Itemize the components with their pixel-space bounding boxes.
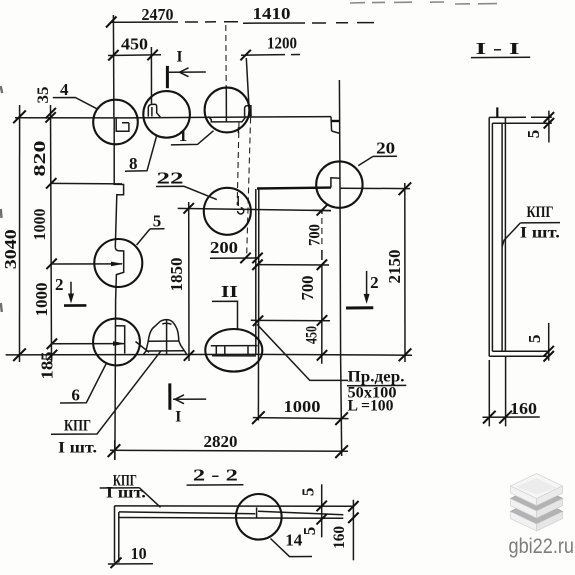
svg-text:2: 2 bbox=[370, 273, 379, 292]
svg-text:I: I bbox=[175, 409, 181, 426]
svg-text:КПГ: КПГ bbox=[527, 204, 554, 221]
left edge lower run bbox=[114, 300, 117, 460]
ticks 700 column bbox=[317, 205, 328, 361]
bell inner cap mark bbox=[162, 323, 171, 324]
detail circle 14 bbox=[236, 494, 282, 540]
crosses 2150 bbox=[399, 182, 412, 361]
svg-text:185: 185 bbox=[38, 352, 57, 380]
svg-text:3040: 3040 bbox=[1, 229, 20, 269]
extension y183 bbox=[51, 182, 122, 185]
recess in circle 3 bbox=[208, 116, 246, 122]
scan noise left margin bbox=[1, 86, 3, 312]
interior line y208 with circle 22 bbox=[178, 208, 331, 210]
bell centerline bbox=[166, 320, 168, 355]
dim line 2470/1410 top bbox=[111, 21, 178, 23]
detail circle 20 bbox=[316, 161, 362, 207]
dim line 3040 vertical bbox=[19, 105, 21, 362]
svg-text:200: 200 bbox=[210, 238, 238, 257]
hidden slot dashed line left bbox=[237, 122, 239, 205]
dim line 2150 bbox=[404, 183, 406, 362]
svg-text:5: 5 bbox=[524, 130, 543, 139]
section line through circle 3 bbox=[225, 86, 227, 122]
svg-text:I - I: I - I bbox=[476, 39, 521, 58]
2-2 channel mid line right bbox=[258, 511, 343, 515]
detail circle 5 bbox=[94, 239, 142, 287]
svg-text:700: 700 bbox=[298, 276, 317, 301]
circle 14 joint bbox=[256, 507, 258, 518]
svg-text:gbi22.ru: gbi22.ru bbox=[509, 535, 575, 558]
detail circle 3 bbox=[205, 88, 250, 133]
circle 22 hook bbox=[238, 196, 244, 214]
detail circle 22 bbox=[204, 188, 251, 235]
opening left double line bbox=[255, 189, 257, 355]
panel bottom edge bbox=[6, 353, 412, 356]
I-I bottom foot bbox=[489, 351, 549, 356]
dim line 1850 vertical bbox=[188, 202, 190, 361]
svg-text:450: 450 bbox=[304, 326, 321, 344]
I-I top dim extension bbox=[505, 116, 551, 118]
extension y343.7 with arrow bbox=[51, 343, 124, 345]
extension for 2820 left bbox=[114, 440, 116, 460]
svg-text:2: 2 bbox=[55, 275, 64, 294]
detail oval II bbox=[205, 329, 262, 372]
svg-text:820: 820 bbox=[30, 141, 49, 177]
svg-text:II: II bbox=[221, 282, 238, 301]
I-I top 5 dim bbox=[548, 111, 550, 143]
short extension y210 bbox=[312, 209, 332, 211]
svg-text:700: 700 bbox=[307, 224, 324, 246]
2-2 160 dim bbox=[352, 500, 354, 561]
I-I channel outer left wall bbox=[488, 117, 490, 356]
svg-text:450: 450 bbox=[121, 35, 148, 54]
tick 2470 left bbox=[106, 17, 117, 28]
right edge extension below bbox=[341, 355, 342, 456]
svg-text:1200: 1200 bbox=[267, 34, 297, 53]
oval II interior band bbox=[211, 346, 258, 356]
detail circle 6 bbox=[93, 319, 140, 366]
svg-text:4: 4 bbox=[60, 80, 69, 99]
svg-text:1850: 1850 bbox=[167, 258, 186, 292]
dim line 200 bbox=[210, 257, 259, 259]
bell horizontal bands bbox=[146, 341, 184, 351]
extension line x248 from 1200 dim to slot bbox=[246, 58, 249, 105]
extension line x151 from 450 dim to slot bbox=[150, 47, 152, 104]
svg-text:5: 5 bbox=[300, 527, 319, 536]
scan noise top right bbox=[350, 2, 497, 4]
left edge bulge at circle 6 bbox=[115, 326, 125, 354]
left dim column line bbox=[51, 105, 52, 362]
svg-text:5: 5 bbox=[525, 334, 544, 343]
2-2 wall bottom tick bbox=[111, 558, 122, 569]
svg-text:6: 6 bbox=[71, 386, 80, 405]
dim column 700/700/450 bbox=[321, 210, 323, 363]
svg-text:Пр.дер.: Пр.дер. bbox=[348, 369, 405, 386]
left edge bulge at circle 5 bbox=[115, 247, 123, 300]
interior extension line y264.8 bbox=[258, 264, 329, 266]
svg-text:L =100: L =100 bbox=[348, 398, 394, 415]
svg-text:160: 160 bbox=[510, 399, 537, 418]
svg-text:8: 8 bbox=[129, 154, 138, 173]
2-2 channel mid line left bbox=[119, 512, 255, 514]
2-2 right 5/5 dims bbox=[321, 484, 323, 537]
bell stray leader bbox=[136, 342, 150, 353]
opening left edge extension below bbox=[257, 355, 259, 421]
ticks 1850 bbox=[184, 203, 195, 361]
2-2 channel bottom line bbox=[118, 517, 343, 520]
detail circle 4 bbox=[93, 100, 138, 145]
dim line 1000 bottom bbox=[253, 418, 349, 419]
hidden slot dashed line right bbox=[247, 118, 251, 259]
ticks 450 bbox=[108, 50, 158, 61]
svg-text:1000: 1000 bbox=[284, 397, 321, 416]
svg-text:10: 10 bbox=[131, 544, 147, 563]
I-I channel inner left wall bbox=[491, 123, 493, 351]
svg-text:I шт.: I шт. bbox=[106, 485, 146, 502]
crosses 2820 bbox=[108, 444, 348, 458]
panel right edge bbox=[339, 80, 340, 355]
I-I channel top cap bbox=[489, 117, 505, 123]
watermark logo slab top bbox=[510, 474, 562, 506]
opening top heavy edge bbox=[257, 186, 331, 189]
svg-text:I шт.: I шт. bbox=[58, 440, 97, 457]
hidden extension dashed above circle 3 bbox=[225, 25, 227, 86]
extension line x113 top left bbox=[112, 15, 115, 117]
crosses 3040 bbox=[13, 111, 26, 362]
slot in circle 2 bbox=[148, 104, 160, 117]
dim line 2820 bbox=[110, 450, 348, 451]
I-I channel inner right wall bbox=[501, 123, 503, 351]
tick 1200 bbox=[240, 50, 250, 61]
ticks 200 bbox=[240, 253, 262, 264]
svg-text:35: 35 bbox=[35, 86, 52, 103]
leader Pr.der. to opening edge bbox=[257, 324, 348, 380]
panel top edge bbox=[15, 117, 331, 118]
svg-text:5: 5 bbox=[299, 488, 318, 497]
watermark logo slab middle bbox=[510, 486, 562, 518]
svg-text:1410: 1410 bbox=[253, 4, 291, 23]
top-right corner notch bbox=[331, 117, 340, 134]
svg-text:2150: 2150 bbox=[385, 250, 404, 284]
svg-text:1000: 1000 bbox=[32, 283, 51, 317]
opening top extension to 2150 dim bbox=[340, 187, 410, 189]
slot in circle 3 bbox=[245, 106, 251, 117]
ticks at opening edge bbox=[252, 260, 263, 327]
dim line 450 top bbox=[108, 54, 161, 57]
I-I 160 dim bbox=[489, 356, 505, 426]
I-I bottom 5 dim bbox=[548, 323, 550, 361]
svg-text:1000: 1000 bbox=[30, 209, 49, 241]
I-I top nub bbox=[496, 107, 498, 117]
dim line 1200 bbox=[241, 54, 300, 57]
dashes below recess bbox=[237, 127, 239, 133]
2-2 channel top line bbox=[114, 505, 353, 507]
svg-text:22: 22 bbox=[157, 169, 184, 188]
panel left edge with jog bbox=[114, 118, 123, 248]
detail circle 2 bbox=[143, 91, 190, 138]
opening top-right rebate step bbox=[331, 178, 340, 188]
svg-text:I шт.: I шт. bbox=[520, 225, 560, 242]
svg-text:160: 160 bbox=[331, 526, 348, 549]
2-2 left wall bbox=[114, 506, 116, 563]
crosses 1000 bottom bbox=[252, 411, 348, 425]
circle 4 interior step bbox=[116, 118, 129, 131]
svg-text:2820: 2820 bbox=[204, 432, 238, 451]
lifting loop bell bbox=[143, 320, 187, 355]
svg-text:КПГ: КПГ bbox=[64, 418, 91, 435]
svg-text:20: 20 bbox=[376, 139, 395, 158]
interior extension line y320.5 bbox=[251, 319, 330, 321]
ticks left column bbox=[45, 108, 57, 360]
I-I channel outer right wall bbox=[504, 117, 506, 351]
svg-text:I: I bbox=[176, 49, 182, 66]
svg-text:2470: 2470 bbox=[142, 5, 174, 24]
svg-text:5: 5 bbox=[153, 212, 162, 231]
svg-text:2 - 2: 2 - 2 bbox=[193, 466, 238, 485]
extension y264 with arrow bbox=[51, 263, 122, 265]
watermark logo slab bottom bbox=[510, 499, 562, 531]
svg-text:1: 1 bbox=[179, 126, 188, 145]
